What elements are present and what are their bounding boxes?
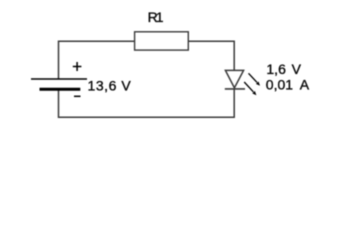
battery B1 thin positive plate	[31, 78, 87, 80]
svg-text:1: 1	[156, 9, 164, 25]
wire left upper segment (top-left corner to battery top plate)	[59, 41, 135, 79]
LED D1 triangle	[225, 70, 243, 88]
battery B1 thick negative plate	[40, 88, 81, 91]
battery plus sign	[73, 62, 82, 71]
LED arrow 1	[249, 73, 261, 86]
svg-text:1,6: 1,6	[266, 61, 286, 77]
svg-text:0,01: 0,01	[266, 76, 293, 92]
wire top-right segment (resistor to LED)	[188, 41, 234, 70]
svg-text:V: V	[292, 61, 302, 77]
LED D1 cathode bar	[225, 88, 245, 90]
resistor R1	[135, 32, 189, 50]
wire bottom segment (battery bottom to LED bottom)	[59, 89, 235, 117]
battery minus sign	[74, 95, 81, 97]
svg-text:A: A	[300, 76, 310, 92]
LED arrow 2	[244, 82, 256, 95]
svg-text:13,6 V: 13,6 V	[88, 77, 132, 93]
